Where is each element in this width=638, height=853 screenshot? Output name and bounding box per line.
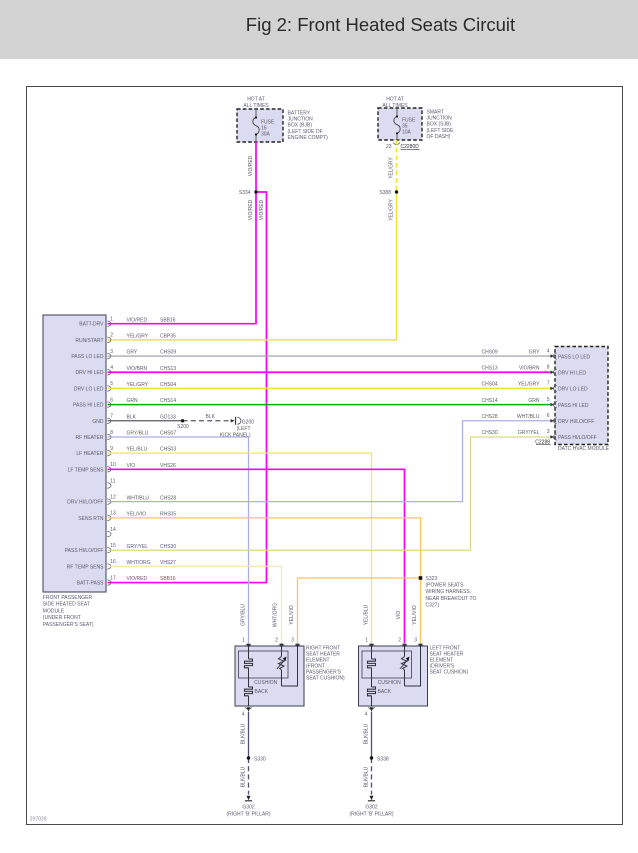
svg-text:16: 16 [110,559,116,565]
svg-text:DRV LO LED: DRV LO LED [74,386,104,392]
svg-text:GRY/BLU: GRY/BLU [127,431,149,437]
svg-text:CHS28: CHS28 [482,414,498,420]
svg-text:PASS HI/LO/OFF: PASS HI/LO/OFF [65,548,104,554]
svg-text:DRV HI/LO/OFF: DRV HI/LO/OFF [67,500,103,506]
svg-text:VHS27: VHS27 [160,560,176,566]
svg-text:(LEFT: (LEFT [237,426,251,432]
svg-text:PASS HI LED: PASS HI LED [73,403,104,409]
svg-text:GRY/BLU: GRY/BLU [240,604,246,626]
svg-text:9: 9 [110,446,113,452]
svg-text:DRV HI LED: DRV HI LED [558,370,586,376]
svg-text:G302: G302 [242,805,254,811]
svg-text:BATTERY: BATTERY [288,111,311,117]
svg-text:BLK/BLU: BLK/BLU [364,766,370,787]
svg-text:DRV LO LED: DRV LO LED [558,387,588,393]
svg-text:BLK/BLU: BLK/BLU [241,766,247,787]
svg-text:G302: G302 [365,805,377,811]
svg-text:2: 2 [398,638,401,644]
svg-text:GRY: GRY [127,350,138,356]
svg-text:YEL/BLU: YEL/BLU [127,447,148,453]
svg-text:CHS09: CHS09 [482,349,498,355]
svg-text:DRV HI/LO/OFF: DRV HI/LO/OFF [558,419,594,425]
svg-text:1: 1 [242,638,245,644]
svg-text:CBP35: CBP35 [160,333,176,339]
svg-text:LF HEATER: LF HEATER [76,451,104,457]
svg-text:30A: 30A [261,132,271,138]
svg-text:CHS07: CHS07 [160,431,176,437]
svg-text:S388: S388 [379,190,391,196]
svg-text:(POWER SEATS: (POWER SEATS [426,583,465,589]
svg-text:(UNDER FRONT: (UNDER FRONT [43,615,81,621]
svg-text:SEAT CUSHION): SEAT CUSHION) [430,670,469,676]
svg-text:ENGINE COMPT): ENGINE COMPT) [288,135,329,141]
svg-text:WHT/ORG: WHT/ORG [127,560,151,566]
svg-text:13: 13 [110,511,116,517]
svg-text:HOT AT: HOT AT [247,97,265,103]
svg-text:WHT/BLU: WHT/BLU [517,414,540,420]
svg-text:CHS14: CHS14 [482,398,498,404]
svg-text:GRY: GRY [529,349,540,355]
svg-text:PASSENGER'S SEAT): PASSENGER'S SEAT) [43,622,94,628]
svg-text:YEL/GRY: YEL/GRY [127,382,149,388]
svg-text:VIO/BRN: VIO/BRN [127,366,148,372]
svg-text:VIO: VIO [396,611,402,620]
svg-text:5: 5 [110,381,113,387]
svg-text:YEL/VIO: YEL/VIO [289,605,295,625]
svg-text:8: 8 [110,430,113,436]
svg-text:3: 3 [291,638,294,644]
svg-text:S334: S334 [239,190,251,196]
svg-text:JUNCTION: JUNCTION [288,117,314,123]
svg-text:4: 4 [110,365,113,371]
svg-text:GRN: GRN [127,398,139,404]
svg-text:3: 3 [414,638,417,644]
svg-text:BOX (BJB): BOX (BJB) [288,123,313,129]
svg-text:RHS05: RHS05 [160,511,176,517]
svg-text:GRN: GRN [528,398,540,404]
svg-text:CHS04: CHS04 [160,382,176,388]
svg-text:CHS28: CHS28 [160,495,176,501]
svg-text:PASS HI/LO/OFF: PASS HI/LO/OFF [558,435,597,441]
svg-text:14: 14 [110,527,116,533]
svg-text:C327): C327) [426,602,440,608]
svg-text:S323: S323 [426,576,438,582]
svg-text:BLK/BLU: BLK/BLU [241,723,247,744]
svg-text:VIO/RED: VIO/RED [248,199,254,220]
svg-text:CHS30: CHS30 [482,430,498,436]
svg-text:(LEFT SIDE: (LEFT SIDE [427,128,455,134]
svg-text:(RIGHT 'B' PILLAR): (RIGHT 'B' PILLAR) [226,812,270,818]
svg-text:ALL TIMES: ALL TIMES [243,103,269,109]
svg-text:7: 7 [110,414,113,420]
svg-text:BATT-PASS: BATT-PASS [77,581,104,587]
svg-text:GD133: GD133 [160,414,176,420]
svg-text:4: 4 [547,348,550,354]
svg-text:SMART: SMART [427,110,444,116]
svg-text:1: 1 [365,638,368,644]
svg-text:RF HEATER: RF HEATER [76,435,104,441]
svg-text:2: 2 [110,333,113,339]
svg-text:G200: G200 [242,420,254,426]
svg-text:FRONT PASSENGER: FRONT PASSENGER [43,595,93,601]
svg-text:SBB16: SBB16 [160,317,176,323]
svg-text:297029: 297029 [30,816,47,822]
svg-text:BATT-DRV: BATT-DRV [79,322,104,328]
svg-text:BOX (SJB): BOX (SJB) [427,122,452,128]
svg-text:BACK: BACK [255,689,269,695]
svg-text:BACK: BACK [378,689,392,695]
svg-text:15: 15 [110,543,116,549]
svg-text:VIO/RED: VIO/RED [127,317,148,323]
svg-text:3: 3 [110,349,113,355]
svg-text:RF TEMP SENS: RF TEMP SENS [67,564,104,570]
svg-text:CHS30: CHS30 [160,544,176,550]
svg-text:8: 8 [547,364,550,370]
svg-text:4: 4 [365,712,368,718]
svg-text:YEL/GRY: YEL/GRY [518,382,540,388]
svg-text:MODULE: MODULE [43,608,65,614]
svg-text:4: 4 [242,712,245,718]
svg-text:1: 1 [110,317,113,323]
svg-text:YEL/BLU: YEL/BLU [363,604,369,625]
svg-text:3: 3 [547,429,550,435]
svg-text:PASS LO LED: PASS LO LED [558,354,591,360]
svg-text:CHS14: CHS14 [160,398,176,404]
svg-text:YEL/GRY: YEL/GRY [389,199,395,221]
svg-text:S200: S200 [177,424,189,430]
svg-text:2: 2 [275,638,278,644]
svg-text:PASS HI LED: PASS HI LED [558,403,589,409]
svg-text:DRV HI LED: DRV HI LED [76,370,104,376]
svg-text:NEAR BREAKOUT TO: NEAR BREAKOUT TO [426,596,477,602]
svg-text:WHT/BLU: WHT/BLU [127,495,150,501]
svg-text:WIRING HARNESS,: WIRING HARNESS, [426,589,472,595]
svg-text:JUNCTION: JUNCTION [427,116,453,122]
svg-text:YEL/VIO: YEL/VIO [127,511,147,517]
svg-text:CHS04: CHS04 [482,382,498,388]
svg-text:DATC HVAC MODULE: DATC HVAC MODULE [558,446,610,452]
svg-text:BLK: BLK [127,414,137,420]
svg-text:6: 6 [547,413,550,419]
svg-text:CHS09: CHS09 [160,350,176,356]
svg-text:PASS LO LED: PASS LO LED [71,354,104,360]
svg-text:11: 11 [110,478,115,484]
svg-text:LF TEMP SENS: LF TEMP SENS [68,467,105,473]
svg-text:RUN/START: RUN/START [75,338,103,344]
svg-text:YEL/GRY: YEL/GRY [127,333,149,339]
svg-text:CHS13: CHS13 [482,365,498,371]
svg-text:SENS RTN: SENS RTN [78,516,104,522]
svg-text:VIO/RED: VIO/RED [248,155,254,176]
svg-text:VIO/RED: VIO/RED [259,199,265,220]
svg-text:GRY/YEL: GRY/YEL [518,430,540,436]
svg-text:10A: 10A [402,130,412,136]
svg-text:WHT/ORG: WHT/ORG [272,603,278,627]
svg-text:BLK: BLK [206,414,216,420]
svg-text:VIO: VIO [127,463,136,469]
svg-text:Fig 2: Front Heated Seats Circ: Fig 2: Front Heated Seats Circuit [246,14,515,35]
svg-text:(RIGHT 'B' PILLAR): (RIGHT 'B' PILLAR) [349,812,393,818]
svg-text:5: 5 [547,397,550,403]
svg-text:SEAT CUSHION): SEAT CUSHION) [306,676,345,682]
svg-text:VHS26: VHS26 [160,463,176,469]
svg-text:S338: S338 [377,757,389,763]
svg-text:GRY/YEL: GRY/YEL [127,544,149,550]
svg-text:7: 7 [547,381,550,387]
svg-text:CHS13: CHS13 [160,366,176,372]
svg-text:23: 23 [386,144,392,150]
svg-text:S330: S330 [254,757,266,763]
svg-text:BLK/BLU: BLK/BLU [364,723,370,744]
svg-text:OF DASH): OF DASH) [427,134,451,140]
svg-text:6: 6 [110,397,113,403]
svg-text:(LEFT SIDE OF: (LEFT SIDE OF [288,129,323,135]
svg-text:VIO/BRN: VIO/BRN [519,365,540,371]
svg-text:17: 17 [110,575,116,581]
svg-text:CUSHION: CUSHION [378,680,401,686]
svg-text:10: 10 [110,462,116,468]
svg-text:YEL/GRY: YEL/GRY [389,157,395,179]
svg-text:HOT AT: HOT AT [386,97,404,103]
svg-text:VIO/RED: VIO/RED [127,576,148,582]
svg-text:SBB16: SBB16 [160,576,176,582]
svg-text:CUSHION: CUSHION [254,680,277,686]
svg-text:GND: GND [92,419,104,425]
svg-text:YEL/VIO: YEL/VIO [412,605,418,625]
svg-text:SIDE HEATED SEAT: SIDE HEATED SEAT [43,602,90,608]
svg-text:CHS03: CHS03 [160,447,176,453]
svg-text:12: 12 [110,494,116,500]
